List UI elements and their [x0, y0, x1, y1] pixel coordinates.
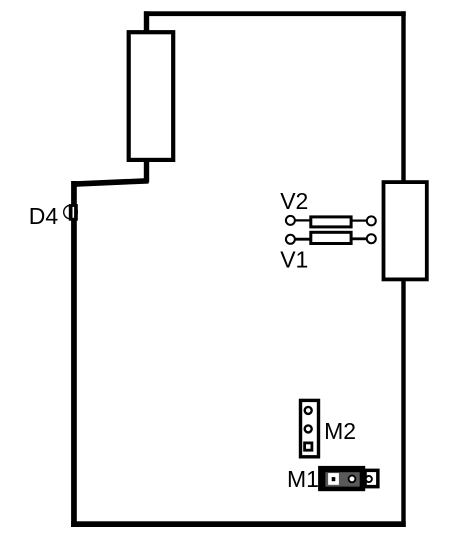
- svg-text:V1: V1: [280, 247, 308, 273]
- svg-text:M1: M1: [287, 466, 319, 492]
- svg-text:M2: M2: [324, 418, 356, 444]
- svg-text:V2: V2: [280, 188, 308, 214]
- svg-text:D4: D4: [29, 203, 59, 229]
